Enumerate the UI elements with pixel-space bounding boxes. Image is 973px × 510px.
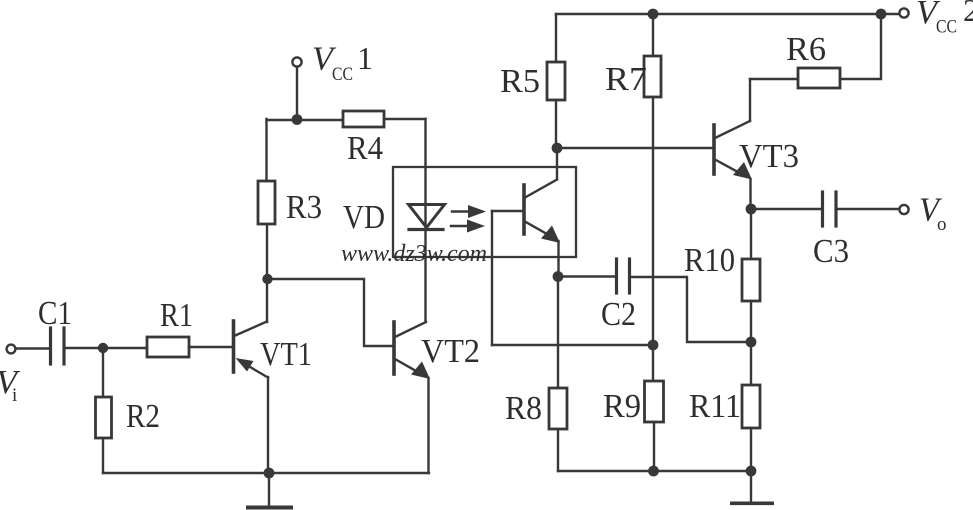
node R10/R11 junction: [746, 337, 757, 348]
svg-text:o: o: [937, 214, 947, 235]
wire base horizontal to R7/R9: [492, 344, 653, 346]
node R9 ground: [648, 466, 659, 477]
node VT1 collector / R3: [262, 274, 272, 284]
node VT3 emitter / C3 / R10: [746, 204, 757, 215]
transistor VT2: [394, 322, 430, 473]
svg-text:R1: R1: [160, 297, 193, 334]
wire R7 top lead: [652, 14, 654, 56]
wire Vcc1 rail to R4: [267, 119, 344, 121]
node Vcc1 junction: [292, 114, 303, 125]
resistor R1: [147, 337, 189, 357]
svg-text:C3: C3: [813, 233, 849, 270]
svg-text:R10: R10: [684, 242, 735, 279]
wire bottom-left ground rail: [103, 472, 429, 474]
node R11 ground: [746, 466, 757, 477]
node ground junction: [264, 468, 275, 479]
optocoupler VD box: [393, 167, 576, 257]
light arrow 2: [451, 220, 485, 233]
wire R5 bottom lead: [555, 100, 557, 148]
svg-text:V: V: [0, 364, 21, 401]
resistor R7: [644, 56, 661, 97]
wire C1 to R1: [66, 347, 148, 349]
wire R11 bottom lead: [750, 428, 752, 471]
resistor R6: [798, 68, 840, 88]
node rail R6: [876, 9, 887, 20]
resistor R5: [547, 62, 565, 100]
svg-text:R11: R11: [689, 388, 741, 425]
node base/R7/R9 junction: [648, 340, 659, 351]
svg-text:R6: R6: [786, 31, 826, 68]
wire R5 top lead: [555, 14, 557, 62]
node R5 / VT3 base: [552, 143, 563, 154]
wire VT1 collector to VT2 base: [268, 279, 393, 346]
label Vcc2: [916, 0, 973, 38]
label Vcc1: [312, 40, 373, 85]
svg-text:C1: C1: [38, 295, 72, 332]
wire top Vcc2 rail: [556, 13, 899, 15]
wire R9 bottom lead: [653, 422, 655, 471]
node junction C1/R1/R2: [98, 343, 108, 353]
wire LED vertical to VT2 collector: [424, 119, 426, 322]
wire emitter node to R8: [557, 277, 559, 389]
svg-text:R2: R2: [126, 398, 160, 435]
svg-text:CC: CC: [936, 17, 957, 38]
resistor R4: [343, 111, 384, 127]
wire VT3 collector to R6: [750, 78, 798, 80]
resistor R11: [742, 385, 760, 428]
terminal Vcc1: [292, 57, 301, 66]
LED diode of VD: [409, 205, 445, 230]
wire node to VT3 base: [557, 147, 713, 149]
svg-text:C2: C2: [601, 296, 636, 333]
svg-text:VD: VD: [343, 199, 385, 236]
label Vo: [919, 192, 947, 236]
terminal Vi input: [7, 345, 16, 354]
wire R6 to Vcc2 rail: [840, 14, 881, 79]
svg-text:CC: CC: [332, 64, 353, 85]
wire R3 top lead: [265, 119, 267, 181]
svg-text:VT1: VT1: [260, 336, 312, 373]
wire Vcc1 lead: [296, 67, 298, 120]
wire R4 to LED: [384, 118, 426, 120]
wire R7 bottom lead to R9: [652, 97, 654, 381]
terminal Vo: [899, 205, 908, 214]
resistor R10: [742, 259, 760, 301]
svg-text:VT2: VT2: [421, 333, 480, 370]
label Vi: [0, 364, 21, 406]
svg-text:R9: R9: [603, 388, 641, 425]
svg-text:R4: R4: [347, 130, 383, 167]
svg-text:R3: R3: [286, 189, 322, 226]
svg-text:R5: R5: [500, 63, 540, 100]
capacitor C3: [823, 192, 837, 226]
wire emitter node to C3: [751, 208, 822, 210]
terminal Vcc2: [899, 8, 908, 17]
phototransistor of VD: [492, 148, 560, 276]
svg-text:2: 2: [963, 0, 973, 28]
light arrow 1: [452, 205, 486, 218]
wire R2 top lead: [102, 348, 104, 397]
svg-text:1: 1: [357, 40, 373, 76]
resistor R3: [258, 181, 275, 224]
wire bottom-right ground rail: [558, 470, 751, 472]
resistor R2: [96, 397, 112, 438]
wire R10 top lead: [750, 209, 752, 259]
wire R11 top lead: [750, 342, 752, 385]
svg-text:VT3: VT3: [739, 138, 799, 175]
ground right: [730, 471, 774, 505]
ground left: [246, 473, 293, 510]
node phototransistor emitter: [553, 271, 564, 282]
wire R2 bottom lead: [102, 438, 104, 473]
wire input to C1: [16, 347, 49, 349]
wire phototransistor base down: [491, 211, 493, 345]
resistor R8: [549, 388, 567, 429]
wire R1 to VT1 base: [189, 346, 232, 348]
wire emitter node to C2: [558, 275, 616, 277]
transistor VT1: [234, 280, 269, 473]
resistor R9: [645, 381, 664, 422]
transistor VT3: [714, 79, 752, 209]
svg-text:R7: R7: [605, 61, 647, 98]
wire R10 bottom lead: [750, 301, 752, 342]
capacitor C1: [51, 328, 65, 364]
capacitor C2: [617, 259, 630, 293]
svg-text:R8: R8: [505, 390, 542, 427]
wire R3 bottom lead: [266, 224, 268, 279]
wire C2 to R10/R11 node: [631, 277, 751, 342]
svg-text:www.dz3w.com: www.dz3w.com: [341, 241, 487, 267]
node rail R7: [648, 9, 659, 20]
wire R8 bottom lead: [557, 429, 559, 471]
svg-text:i: i: [12, 385, 17, 406]
wire C3 to Vo: [837, 208, 898, 210]
